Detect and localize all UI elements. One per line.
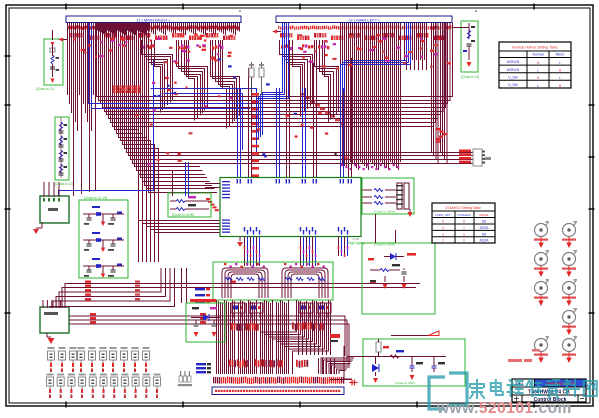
wires G6 to U100 — [375, 214, 377, 243]
connector J3 bottom pin ticks — [213, 377, 214, 384]
svg-text:1: 1 — [442, 232, 444, 236]
test point TP210 — [154, 374, 161, 376]
test point TP13 — [78, 347, 85, 349]
wires to G7 reserve — [181, 268, 183, 303]
scattered net labels — [73, 33, 451, 165]
wire blue staircase center — [341, 23, 411, 92]
red component left of G8 — [330, 334, 340, 338]
driver loop pin specks — [224, 263, 226, 265]
hole H5 — [563, 224, 576, 237]
svg-text:J2 ( MAIN LEFT ): J2 ( MAIN LEFT ) — [348, 18, 380, 23]
bead filter row 2 — [92, 232, 100, 234]
wire blue vertical to DG1 — [59, 60, 154, 196]
hole H4 — [535, 339, 548, 352]
wire blue tier under J1 right — [151, 89, 257, 153]
test point TP21 — [57, 374, 64, 376]
wire bundle J2 center verticals — [341, 23, 401, 170]
wire blue tier under J2 left — [257, 23, 289, 141]
filter block G1 close to J1 — [44, 39, 63, 85]
test point TP25 — [100, 374, 107, 376]
U100 bottom pin labels and stubs — [244, 237, 246, 267]
capacitor C option — [402, 271, 407, 273]
svg-text:L: L — [559, 76, 561, 80]
off-sheet arrow right — [272, 30, 277, 34]
svg-text:0: 0 — [463, 239, 465, 243]
connector CN1 dark green — [40, 196, 69, 223]
svg-text:MSEL06: MSEL06 — [507, 68, 519, 72]
power option block G8 — [363, 339, 465, 386]
wires CN2 right stubs long — [69, 316, 345, 356]
svg-text:LVDS_OPT: LVDS_OPT — [435, 213, 451, 217]
test point TP26 — [111, 374, 118, 376]
svg-text:(Close to J2): (Close to J2) — [55, 182, 73, 186]
test point TP27 — [121, 374, 128, 376]
svg-text:(Close to U100): (Close to U100) — [374, 243, 395, 247]
option block G6 — [362, 243, 435, 314]
svg-text:Normal / Mirror Setting Table: Normal / Mirror Setting Table — [512, 46, 558, 50]
test point TP18 — [132, 347, 139, 349]
driver array box G9 — [213, 262, 333, 300]
hole H8 — [563, 311, 576, 324]
red labels right bundle — [436, 128, 440, 130]
wire J2 to G10 — [452, 27, 469, 29]
normal-mirror setting table — [499, 42, 571, 88]
resistor R2 — [390, 355, 399, 358]
U100 right pins to G5 — [361, 189, 372, 191]
ground arrow U100 — [239, 237, 241, 242]
test point TP23 — [79, 374, 86, 376]
resistor array cluster row 1 — [231, 323, 233, 330]
wire J1 to G1 — [52, 30, 54, 40]
connector CN3 3pin — [179, 376, 182, 382]
wires into G4 — [185, 162, 187, 196]
diode D1 — [390, 253, 396, 260]
test point TP11 — [59, 347, 66, 349]
test point TP20 — [47, 374, 54, 376]
svg-text:(Close to J2, J3): (Close to J2, J3) — [84, 196, 107, 200]
red labels on trees B — [281, 45, 283, 48]
svg-text:(Close to U100): (Close to U100) — [172, 213, 194, 217]
resistor R option — [380, 269, 389, 272]
wire bundle J2 mid verticals — [405, 23, 427, 70]
wire elbow tree A2 — [177, 40, 208, 121]
hole H1 — [535, 224, 548, 237]
connector JP1 — [473, 149, 482, 166]
resistor array cluster row 2 — [229, 359, 231, 366]
wire center fan staircase — [97, 23, 474, 262]
test point TP12 — [70, 347, 77, 349]
EMI filter bank G3 close to J2 J3 — [79, 200, 128, 278]
hole H7 — [563, 282, 576, 295]
wire elbow tree A3 — [211, 40, 240, 129]
watermark chinese characters — [470, 380, 597, 398]
J1 pin number labels — [68, 25, 239, 30]
svg-text:MSEL08: MSEL08 — [507, 60, 519, 64]
U100 left pin labels — [222, 181, 230, 182]
svg-text:JEIDA: JEIDA — [479, 226, 489, 230]
svg-text:NS: NS — [482, 220, 486, 224]
capacitor C11 — [432, 365, 437, 367]
wire bundle J1 left verticals — [68, 23, 96, 196]
wires right of J3 — [321, 358, 354, 374]
ground arrow CN1 — [41, 222, 43, 228]
driver loops group 1 — [222, 268, 328, 298]
svg-text:D_SW: D_SW — [508, 83, 517, 87]
level block G5 close to U100 — [362, 178, 414, 214]
main rail wire — [365, 356, 446, 358]
svg-text:U74AHC2 Setting Table: U74AHC2 Setting Table — [445, 206, 481, 210]
svg-text:L: L — [537, 69, 539, 73]
svg-text:0: 0 — [442, 226, 444, 230]
filter block G10 close to J3 — [461, 21, 478, 72]
svg-text:(Close to J3): (Close to J3) — [461, 75, 479, 79]
svg-text:L: L — [559, 61, 561, 65]
svg-text:1: 1 — [442, 239, 444, 243]
wires CN2 to right bus — [65, 284, 420, 309]
test point TP17 — [121, 347, 128, 349]
jumper JP2 JP3 — [249, 68, 254, 77]
termination block G2 close to J2 — [55, 117, 69, 180]
blue labels left of J3 — [196, 363, 206, 365]
svg-text:U74AHC2: U74AHC2 — [457, 213, 471, 217]
wire bundle to bottom connector — [217, 300, 335, 374]
wires U100 left edge elbows — [139, 221, 221, 233]
capacitor C10 — [410, 365, 415, 367]
red labels on trees A — [143, 46, 145, 49]
J3 label text — [215, 390, 217, 392]
svg-text:www.520101.com: www.520101.com — [436, 400, 572, 417]
hole H2 — [535, 253, 548, 266]
test point TP22 — [68, 374, 75, 376]
svg-text:1: 1 — [463, 232, 465, 236]
ground at J3 right — [330, 379, 352, 381]
wire elbow tree A1 — [142, 40, 173, 113]
red labels on CN2 bus — [85, 281, 91, 283]
transistor Q1 Q2 Q3 Q4 packages — [231, 303, 245, 313]
connector J3 body — [212, 387, 344, 395]
svg-text:J1 ( MAIN RIGHT ): J1 ( MAIN RIGHT ) — [136, 18, 170, 23]
magenta labels under J2 bundle — [341, 164, 343, 166]
diode D2 — [203, 314, 209, 321]
test point TP19 — [143, 347, 150, 349]
svg-text:MODE: MODE — [480, 213, 489, 217]
bead filter row 1 — [92, 206, 100, 208]
hole H9 — [563, 339, 576, 352]
blue labels above G7 — [195, 288, 205, 290]
fuse F1 — [376, 342, 381, 352]
connector J1 (MAIN right) — [66, 16, 241, 23]
hole H6 — [563, 253, 576, 266]
zener Z1 — [372, 364, 379, 372]
wire elbow tree B2 — [315, 40, 339, 122]
test point TP29 — [143, 374, 150, 376]
title block — [512, 379, 586, 402]
test point TP28 — [132, 374, 139, 376]
red reserved label block — [113, 86, 116, 88]
flag arrow net — [391, 335, 428, 337]
svg-text:U_SW: U_SW — [508, 75, 517, 79]
driver cell resistors — [225, 278, 232, 281]
connector J2 (MAIN left) — [276, 16, 452, 23]
red note above title block — [508, 359, 522, 362]
svg-text:Normal: Normal — [533, 53, 544, 57]
svg-text:0: 0 — [442, 220, 444, 224]
wire bundle J2 right elbows join JP1 lines — [432, 23, 447, 164]
off-sheet arrow left — [58, 38, 63, 42]
array U101 — [397, 183, 402, 209]
svg-text:(Close to J1): (Close to J1) — [36, 87, 54, 91]
test point TP16 — [110, 347, 117, 349]
bead filter row 3 — [92, 258, 100, 260]
damping block G4 — [168, 193, 211, 217]
connector CN2 dark green — [40, 307, 69, 333]
ground arrows G6 — [384, 276, 386, 282]
svg-text:(Close to CN2): (Close to CN2) — [395, 381, 415, 385]
svg-text:1: 1 — [463, 226, 465, 230]
U100 top pin stubs — [237, 179, 238, 184]
wires to U100 top pins — [238, 58, 352, 177]
second label band J1 — [70, 33, 72, 38]
svg-text:JEIDA: JEIDA — [479, 239, 489, 243]
svg-text:L: L — [537, 84, 539, 88]
watermark book icon — [429, 373, 467, 409]
ground arrow G5 — [409, 209, 411, 212]
wire blue bus left — [89, 23, 251, 104]
second label band J2 — [280, 33, 282, 38]
test point TP24 — [89, 374, 96, 376]
test point TP10 — [48, 347, 55, 349]
reserve block G7 — [186, 303, 225, 342]
net labels on fan lines — [252, 93, 259, 96]
ground arrow CN2 — [46, 333, 48, 337]
svg-text:0: 0 — [463, 220, 465, 224]
test point TP15 — [100, 347, 107, 349]
test point TP14 — [89, 347, 96, 349]
J2 pin number labels — [278, 25, 451, 30]
U100 left pins — [205, 183, 220, 185]
wires into G8 from left — [344, 346, 352, 379]
LVDS setting table — [432, 203, 495, 243]
wire elbow tree B1 — [280, 40, 313, 117]
IC U100 — [220, 178, 361, 237]
svg-text:(Close to U100): (Close to U100) — [374, 210, 395, 214]
svg-text:NS: NS — [482, 232, 486, 236]
hole H3 — [535, 282, 548, 295]
wire bundle under J1 pin stubs — [68, 23, 240, 35]
svg-text:Mirror: Mirror — [556, 53, 566, 57]
